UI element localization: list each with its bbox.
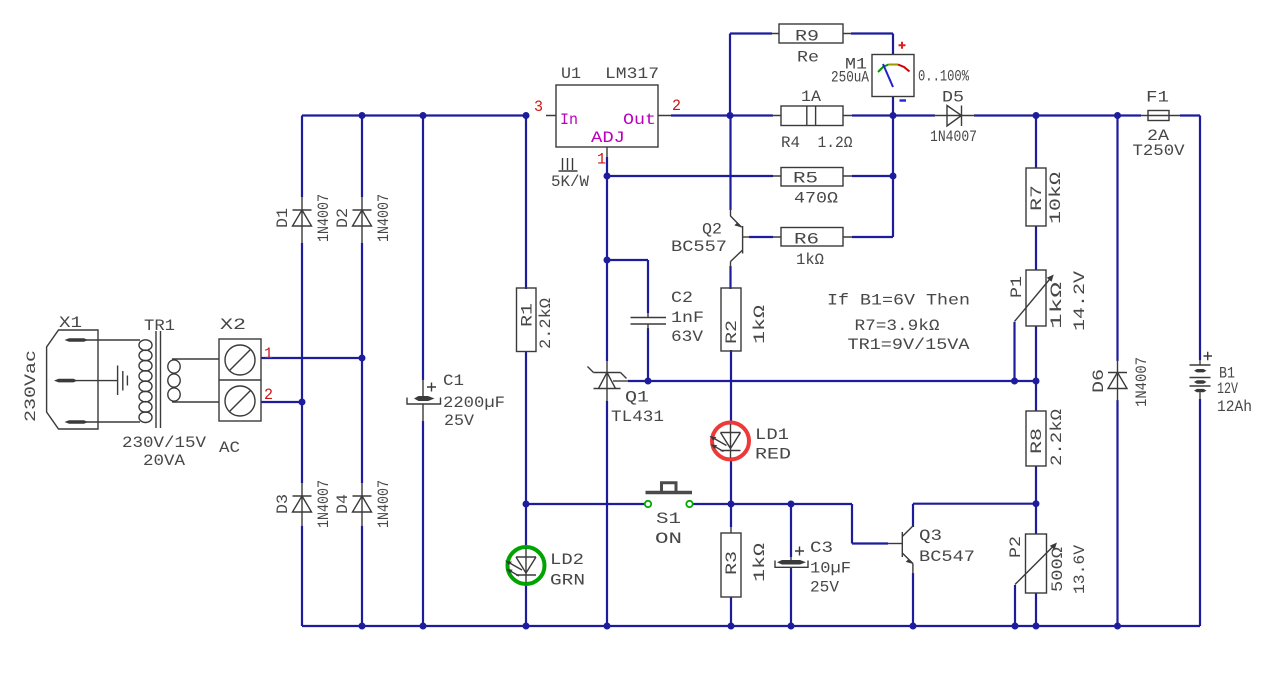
svg-text:1: 1	[264, 345, 273, 363]
wire left column x302	[301, 116, 303, 627]
diode D6	[1108, 360, 1127, 401]
terminal block X2	[219, 339, 261, 421]
svg-text:230V/15V: 230V/15V	[122, 434, 206, 452]
svg-text:P2: P2	[1007, 536, 1025, 558]
svg-text:250uA: 250uA	[831, 69, 869, 87]
svg-text:BC547: BC547	[919, 548, 975, 566]
svg-text:TR1: TR1	[144, 317, 175, 335]
svg-text:R5: R5	[793, 170, 818, 188]
svg-text:R3: R3	[723, 551, 741, 575]
wire bottom rail	[302, 625, 1200, 627]
diode D2	[353, 197, 372, 243]
connector X1	[47, 330, 140, 429]
svg-text:TL431: TL431	[611, 408, 664, 426]
svg-text:P1: P1	[1008, 276, 1026, 298]
LED LD2	[505, 547, 545, 584]
resistor R5	[773, 168, 852, 187]
svg-text:D2: D2	[334, 208, 352, 228]
svg-text:25V: 25V	[444, 412, 474, 430]
wire R7 P1 R8 P2 column	[1035, 116, 1037, 627]
svg-text:Q2: Q2	[702, 221, 722, 239]
svg-text:20VA: 20VA	[143, 452, 185, 470]
svg-text:1kΩ: 1kΩ	[751, 304, 769, 344]
svg-text:2.2kΩ: 2.2kΩ	[537, 298, 555, 349]
transistor Q3 BC547	[888, 526, 913, 574]
svg-text:BC557: BC557	[671, 238, 727, 256]
wire R4 to D5 to F1	[852, 114, 1200, 116]
fuse F1	[1141, 111, 1180, 121]
svg-text:Re: Re	[797, 49, 819, 67]
svg-text:R1: R1	[519, 303, 537, 327]
wire P1 wiper	[1013, 322, 1015, 381]
svg-text:D1: D1	[274, 208, 292, 228]
svg-text:0..100%: 0..100%	[918, 68, 969, 86]
wire column x423 (C1)	[422, 116, 424, 627]
svg-text:5K/W: 5K/W	[551, 173, 589, 191]
svg-text:1kΩ: 1kΩ	[1048, 281, 1066, 329]
svg-text:In: In	[560, 111, 578, 129]
wire Q2 base to R6	[749, 236, 773, 238]
svg-text:2: 2	[672, 97, 681, 115]
svg-text:1kΩ: 1kΩ	[796, 251, 824, 269]
svg-text:R8: R8	[1028, 428, 1046, 454]
svg-text:LD1: LD1	[755, 426, 789, 444]
svg-text:1N4007: 1N4007	[375, 480, 393, 528]
svg-text:1kΩ: 1kΩ	[751, 542, 769, 582]
wire R6 right	[852, 236, 893, 238]
svg-text:1.2Ω: 1.2Ω	[818, 134, 853, 152]
svg-text:U1: U1	[561, 65, 581, 83]
transformer TR1	[139, 331, 219, 428]
resistor R9	[772, 24, 851, 43]
wire column x526 (R1)	[525, 116, 527, 505]
svg-text:1: 1	[597, 151, 606, 169]
wire ref rail y381	[628, 380, 1036, 382]
svg-text:X2: X2	[220, 316, 246, 334]
svg-text:R2: R2	[723, 320, 741, 344]
resistor R4 shunt	[772, 106, 852, 126]
svg-text:230Vac: 230Vac	[22, 350, 40, 422]
svg-text:14.2V: 14.2V	[1071, 271, 1089, 331]
wire U1 out	[671, 114, 773, 116]
node X2 joins	[359, 355, 366, 362]
svg-text:1N4007: 1N4007	[315, 194, 333, 242]
wire X2 pin2	[261, 401, 302, 403]
node ADJ junction	[604, 173, 611, 180]
battery B1	[1190, 352, 1213, 400]
svg-text:TR1=9V/15VA: TR1=9V/15VA	[848, 336, 970, 354]
potentiometer P1	[1015, 270, 1054, 326]
svg-text:10kΩ: 10kΩ	[1047, 171, 1065, 224]
wire P2 wiper	[1014, 585, 1016, 626]
svg-text:LM317: LM317	[605, 65, 659, 83]
wire D6 column	[1116, 116, 1118, 627]
wire Q3 emitter down	[912, 573, 914, 626]
svg-text:S1: S1	[656, 510, 681, 528]
wire R2 LD1 R3 column	[730, 350, 732, 626]
svg-text:D6: D6	[1090, 369, 1108, 393]
node R5 right	[890, 173, 897, 180]
svg-text:12V: 12V	[1217, 380, 1238, 398]
resistor R6	[773, 228, 852, 247]
svg-text:63V: 63V	[671, 328, 703, 346]
potentiometer P2	[1015, 534, 1057, 593]
svg-text:1N4007: 1N4007	[1133, 357, 1151, 407]
diode D5	[934, 106, 975, 127]
svg-text:R9: R9	[795, 28, 819, 46]
svg-text:R4: R4	[781, 134, 800, 152]
svg-text:X1: X1	[59, 314, 82, 332]
svg-text:F1: F1	[1146, 89, 1169, 107]
svg-text:10µF: 10µF	[810, 560, 851, 578]
svg-text:1N4007: 1N4007	[930, 128, 977, 146]
svg-text:2200µF: 2200µF	[443, 394, 505, 412]
resistor R8	[1026, 411, 1046, 466]
svg-text:Out: Out	[623, 111, 656, 129]
svg-text:1N4007: 1N4007	[315, 480, 333, 528]
svg-text:LD2: LD2	[550, 551, 584, 569]
wire C3 column	[790, 504, 792, 626]
wire R9 branch	[730, 34, 893, 116]
capacitor C1	[407, 379, 441, 422]
svg-text:2.2kΩ: 2.2kΩ	[1048, 409, 1066, 466]
svg-text:1N4007: 1N4007	[375, 194, 393, 242]
svg-text:D4: D4	[334, 494, 352, 514]
wire X2 pin1	[261, 357, 362, 359]
wire top rail left	[302, 114, 526, 116]
svg-text:D3: D3	[274, 494, 292, 514]
svg-text:470Ω: 470Ω	[794, 190, 838, 208]
svg-text:If B1=6V Then: If B1=6V Then	[827, 292, 970, 310]
svg-text:AC: AC	[219, 439, 240, 457]
wire S1 row	[526, 504, 888, 544]
svg-text:25V: 25V	[810, 579, 839, 597]
LED LD1	[710, 423, 750, 460]
capacitor C2	[631, 313, 667, 330]
svg-text:Q3: Q3	[919, 527, 942, 545]
svg-text:R7=3.9kΩ: R7=3.9kΩ	[855, 317, 940, 335]
svg-text:ON: ON	[655, 530, 682, 548]
wire R5 right	[852, 175, 893, 177]
heatsink symbol	[559, 158, 578, 171]
wire Q3 collector top	[913, 504, 1036, 527]
svg-text:RED: RED	[755, 446, 791, 464]
resistor R1	[517, 288, 537, 352]
node bottom rail dots	[359, 623, 366, 630]
wire C2 branch	[607, 260, 648, 381]
svg-text:3: 3	[534, 98, 543, 116]
svg-text:C2: C2	[671, 289, 693, 307]
svg-text:R6: R6	[794, 231, 819, 249]
svg-text:T250V: T250V	[1133, 142, 1185, 160]
wire LD2 column	[525, 504, 527, 626]
node S1 row dots	[523, 501, 530, 508]
diode D4	[353, 483, 372, 526]
svg-text:R7: R7	[1028, 185, 1046, 211]
svg-text:Q1: Q1	[625, 389, 649, 407]
wire ADJ to R5	[607, 157, 773, 176]
wire Q1 column	[606, 176, 608, 626]
svg-text:2: 2	[264, 386, 273, 404]
svg-text:D5: D5	[942, 89, 964, 107]
wire right column B1	[1199, 116, 1201, 627]
wire column x362	[361, 116, 363, 627]
svg-text:C1: C1	[443, 372, 464, 390]
node ref rail dots	[645, 378, 652, 385]
node C2 top junction	[604, 257, 611, 264]
wire Q2 emitter/collector column	[729, 116, 731, 290]
svg-text:13.6V: 13.6V	[1071, 545, 1089, 594]
capacitor C3	[775, 547, 808, 571]
shunt regulator Q1 TL431	[588, 361, 629, 401]
meter M1	[872, 42, 914, 101]
svg-text:1nF: 1nF	[671, 309, 704, 327]
node top rail dots	[359, 112, 366, 119]
diode D1	[293, 197, 312, 243]
op-amp regulator U1 LM317	[546, 85, 671, 157]
svg-text:12Ah: 12Ah	[1217, 398, 1252, 416]
ground earth symbol	[118, 366, 128, 396]
wire column x893	[892, 116, 894, 238]
svg-text:C3: C3	[810, 539, 833, 557]
svg-text:GRN: GRN	[550, 572, 585, 590]
svg-text:1A: 1A	[801, 88, 821, 106]
svg-text:500Ω: 500Ω	[1049, 547, 1067, 592]
transistor Q2 BC557	[731, 209, 751, 267]
resistor R7	[1026, 168, 1046, 226]
switch S1	[645, 483, 693, 507]
resistor R3	[721, 527, 741, 597]
svg-text:ADJ: ADJ	[591, 129, 625, 147]
diode D3	[293, 483, 312, 526]
resistor R2	[721, 288, 741, 351]
